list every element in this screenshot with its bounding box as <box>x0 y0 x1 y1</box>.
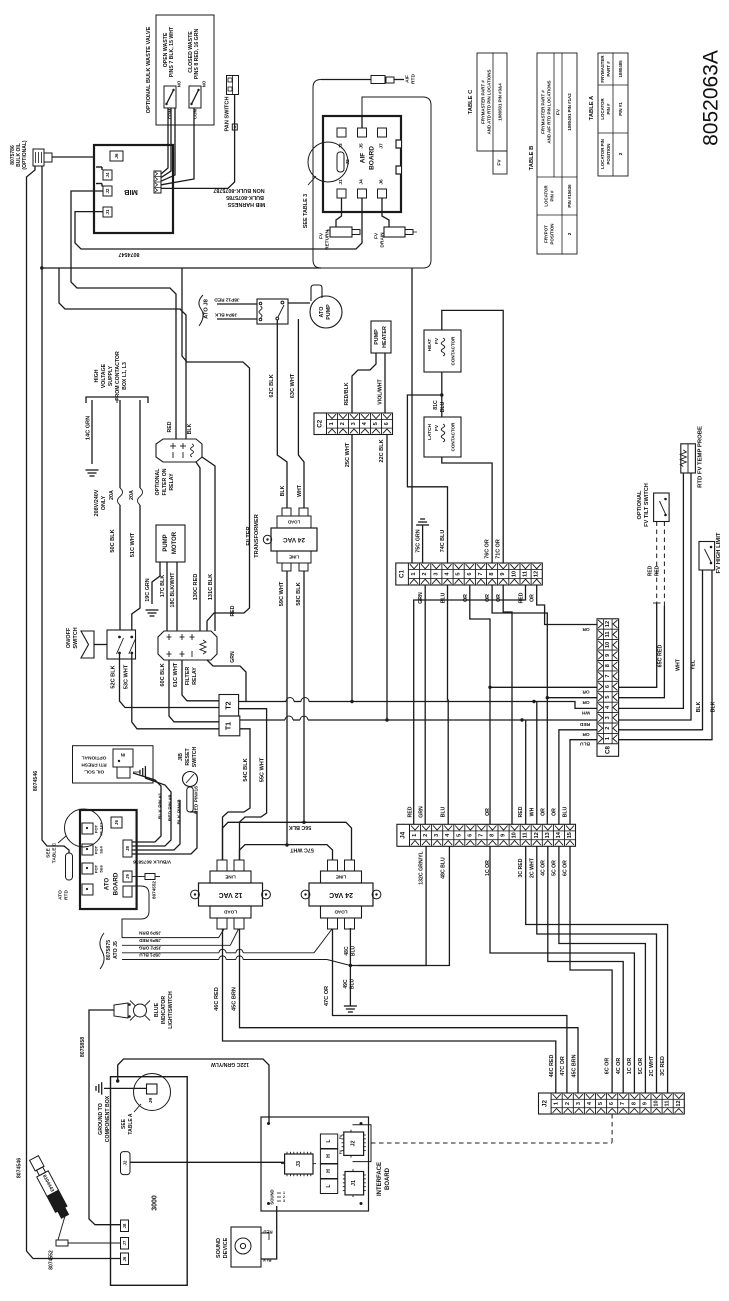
svg-text:RED PIN#16: RED PIN#16 <box>194 786 200 814</box>
svg-text:OR: OR <box>540 808 546 816</box>
svg-text:20A: 20A <box>129 490 135 500</box>
high voltage bracket <box>86 397 148 403</box>
wire RED to filter relay pin9 <box>207 606 250 631</box>
wire 45C BRN <box>240 929 579 1093</box>
wire AIF J1 to FV return <box>336 198 342 227</box>
wire chevron to switch <box>94 644 107 646</box>
AIF connector J7 <box>378 128 387 137</box>
JIB reset switch <box>183 772 198 787</box>
svg-text:BLK: BLK <box>696 701 702 712</box>
svg-text:48C BLU: 48C BLU <box>441 857 447 879</box>
svg-text:CONTACTOR: CONTACTOR <box>451 422 456 452</box>
svg-text:TABLE C: TABLE C <box>52 842 58 863</box>
svg-text:SEE: SEE <box>46 847 52 857</box>
svg-text:LOCATOR: LOCATOR <box>544 185 549 207</box>
svg-text:DEVICE: DEVICE <box>223 1237 229 1258</box>
connector C2 <box>314 413 393 435</box>
svg-text:3C RED: 3C RED <box>518 858 524 877</box>
svg-text:YEL: YEL <box>691 659 697 670</box>
filter transformer 24 VAC <box>271 528 317 551</box>
svg-text:GRN: GRN <box>230 651 236 663</box>
svg-text:SWITCH: SWITCH <box>73 627 79 648</box>
wire 71C OR from heat contactor <box>442 310 503 563</box>
optional RTI fresh oil box <box>73 746 154 783</box>
svg-text:45C BRN: 45C BRN <box>571 1054 577 1077</box>
ATO RTD pill <box>66 853 73 880</box>
wire C1-11 RED to J4-1 <box>414 585 526 824</box>
wire 17C BLK <box>166 562 168 631</box>
wire relay to ATO pump <box>288 302 310 304</box>
svg-text:22C BLK: 22C BLK <box>379 439 385 462</box>
svg-text:1: 1 <box>329 422 335 425</box>
svg-text:13: 13 <box>545 832 551 838</box>
optional FV tilt switch <box>654 493 670 522</box>
svg-text:5C OR: 5C OR <box>551 860 557 876</box>
svg-text:CONTACTOR: CONTACTOR <box>451 336 456 366</box>
latch FV contactor <box>424 417 461 457</box>
svg-text:J5: J5 <box>359 143 365 149</box>
terminal block T2 <box>219 695 239 717</box>
svg-text:BLU: BLU <box>563 806 569 817</box>
wire 55C to 12VAC line right <box>240 812 267 860</box>
svg-text:11: 11 <box>605 631 611 637</box>
wire J5P5 RED <box>122 929 239 945</box>
svg-text:OR: OR <box>551 808 557 816</box>
wire T1 output to C8-3 RED <box>240 719 285 721</box>
svg-text:FV: FV <box>319 232 325 239</box>
svg-text:J3: J3 <box>338 143 344 149</box>
optional bulk waste valve box <box>156 15 214 125</box>
AIF RTD connector <box>371 76 385 84</box>
svg-text:FRYMASTER: FRYMASTER <box>600 55 605 83</box>
svg-text:DRAIN: DRAIN <box>380 232 386 248</box>
svg-text:BLU: BLU <box>351 945 357 956</box>
svg-text:LINE: LINE <box>336 875 346 880</box>
wire C8-5 OR line <box>547 697 597 699</box>
svg-text:RED PIN #9: RED PIN #9 <box>168 794 174 821</box>
svg-text:46C RED: 46C RED <box>214 987 220 1011</box>
svg-text:RED: RED <box>263 1230 272 1235</box>
svg-text:2: 2 <box>422 572 428 575</box>
wire 132C GRN/YL <box>358 846 426 965</box>
svg-text:60C BLK: 60C BLK <box>160 663 166 686</box>
svg-text:FILTER: FILTER <box>246 526 252 545</box>
wire open waste NO to MIB J5 <box>161 108 175 181</box>
wire BLK PIN #1 <box>132 773 161 842</box>
svg-text:59C WHT: 59C WHT <box>279 581 285 606</box>
svg-text:3: 3 <box>605 716 611 719</box>
wire 5C OR staircase <box>559 846 646 1093</box>
3000 connector J7 <box>121 1238 129 1250</box>
AIF connector J2 pill <box>337 152 344 172</box>
svg-text:8074546: 8074546 <box>17 1158 23 1178</box>
wire BLK C8-1 to high limit <box>619 570 712 740</box>
svg-text:48C: 48C <box>344 946 350 956</box>
svg-text:LIGHT/SWITCH: LIGHT/SWITCH <box>168 991 174 1029</box>
svg-text:ATO J5: ATO J5 <box>113 941 119 959</box>
svg-text:BLK: BLK <box>711 701 717 712</box>
svg-text:GROUND TO: GROUND TO <box>98 1103 104 1135</box>
wire MIB J1 to AIF J4 <box>75 198 362 249</box>
svg-text:COM: COM <box>193 109 198 120</box>
svg-text:10: 10 <box>605 642 611 648</box>
svg-text:12: 12 <box>534 571 540 577</box>
svg-text:25C WHT: 25C WHT <box>345 442 351 467</box>
wire 74C BLU junction to C1-4 <box>407 395 447 563</box>
svg-text:LINE: LINE <box>289 555 299 560</box>
svg-text:FV: FV <box>497 159 503 166</box>
svg-text:55C WHT: 55C WHT <box>260 757 266 782</box>
svg-text:12: 12 <box>676 1100 682 1106</box>
table C <box>477 53 507 151</box>
ATO connector J5 <box>82 884 93 895</box>
svg-text:TABLE A: TABLE A <box>128 1113 134 1134</box>
wire 76C OR latch to C1-8 <box>442 457 492 563</box>
svg-text:C1: C1 <box>399 569 406 577</box>
svg-text:J9: J9 <box>148 1098 154 1104</box>
svg-text:47C OR: 47C OR <box>324 986 330 1006</box>
wire 60C BLK filter relay to T1 <box>169 660 219 722</box>
svg-text:BLU: BLU <box>441 592 447 603</box>
svg-text:56C BLK: 56C BLK <box>289 824 312 830</box>
ATO connector J10 <box>123 886 132 897</box>
svg-text:(OPTIONAL): (OPTIONAL) <box>22 140 28 169</box>
svg-text:J2: J2 <box>105 188 110 193</box>
svg-text:LOCATOR PIN: LOCATOR PIN <box>600 139 605 169</box>
svg-text:130C RED: 130C RED <box>193 574 199 601</box>
wire J4-12 WH riser <box>536 702 538 825</box>
wire C1-6 OR down <box>470 585 490 824</box>
svg-text:50C BLK: 50C BLK <box>110 529 116 552</box>
svg-text:BLUE: BLUE <box>154 1002 160 1017</box>
svg-text:BLU: BLU <box>441 806 447 817</box>
svg-text:14C GRN: 14C GRN <box>86 416 92 440</box>
svg-text:5: 5 <box>605 695 611 698</box>
sound device <box>231 1227 261 1267</box>
svg-text:RED/BLK: RED/BLK <box>344 382 350 405</box>
svg-text:6C OR: 6C OR <box>563 860 569 876</box>
svg-text:HEAT: HEAT <box>427 339 433 352</box>
svg-text:BOARD: BOARD <box>385 1167 391 1190</box>
wire VIOL/WHT pump heater to C2-6 <box>384 353 386 413</box>
svg-text:ATO: ATO <box>58 890 64 900</box>
wire T2 output to C8-4 WH <box>239 701 286 703</box>
wire 18C BLK/WHT <box>176 562 178 631</box>
connector C1 <box>396 563 543 585</box>
svg-text:PUMP: PUMP <box>326 304 332 320</box>
svg-text:18C BLK/WHT: 18C BLK/WHT <box>170 572 176 608</box>
wire 52C BLK switch to T2 <box>120 654 220 708</box>
svg-text:7: 7 <box>478 834 484 837</box>
terminal block T1 <box>219 716 240 736</box>
J9 ground <box>101 1082 103 1094</box>
svg-text:9: 9 <box>605 654 611 657</box>
svg-text:53C WHT: 53C WHT <box>124 664 130 689</box>
AIF circle <box>308 142 348 182</box>
svg-text:6: 6 <box>605 685 611 688</box>
ATO circle <box>65 809 103 847</box>
svg-text:6: 6 <box>467 572 473 575</box>
svg-text:GRN: GRN <box>419 806 425 818</box>
svg-text:H: H <box>326 1154 332 1158</box>
svg-text:INTERFACE: INTERFACE <box>377 1162 383 1196</box>
svg-text:6: 6 <box>609 1102 615 1105</box>
wire 54C to 12VAC line left <box>223 806 251 860</box>
svg-text:MIB: MIB <box>124 188 138 197</box>
wire AIF RTD to harness <box>321 79 371 81</box>
J9 circle <box>134 1074 171 1111</box>
wire relay to 131C BLK <box>202 457 215 631</box>
svg-text:75C GRN: 75C GRN <box>416 529 422 552</box>
svg-text:PIN #: PIN # <box>606 103 611 115</box>
svg-text:C2: C2 <box>317 419 324 427</box>
svg-text:OR: OR <box>582 699 590 705</box>
svg-text:J2: J2 <box>351 1141 357 1147</box>
svg-text:AIF: AIF <box>360 153 367 164</box>
svg-text:J8P12 RED: J8P12 RED <box>214 297 240 303</box>
wire 8075858 lamp to 3000 J8 <box>89 1010 121 1225</box>
svg-text:RED: RED <box>655 565 661 576</box>
svg-text:FV TILT SWITCH: FV TILT SWITCH <box>644 483 650 527</box>
svg-text:61C WHT: 61C WHT <box>173 662 179 687</box>
svg-text:10: 10 <box>654 1100 660 1106</box>
wire 3000 J2 to interface J3 <box>130 1161 285 1163</box>
FV high limit switch <box>699 542 715 571</box>
svg-text:TABLE C: TABLE C <box>468 89 474 115</box>
wire MIB J2 right <box>71 191 176 439</box>
svg-text:1: 1 <box>554 1102 560 1105</box>
svg-text:9: 9 <box>501 834 507 837</box>
svg-text:J6: J6 <box>379 179 385 185</box>
svg-text:J2: J2 <box>541 1100 548 1107</box>
svg-text:T1: T1 <box>226 722 233 730</box>
connector J4 <box>397 824 576 846</box>
svg-text:LOCATOR: LOCATOR <box>600 98 605 120</box>
svg-text:2: 2 <box>605 727 611 730</box>
svg-text:WH: WH <box>529 807 535 816</box>
svg-text:2: 2 <box>567 232 572 235</box>
svg-text:PINS 7 BLK, 15 WHT: PINS 7 BLK, 15 WHT <box>169 26 175 77</box>
table A <box>598 53 628 176</box>
svg-text:PUMP: PUMP <box>374 329 380 345</box>
svg-text:J8P4 BLK: J8P4 BLK <box>214 312 237 318</box>
wire BLK PIN#8 <box>132 800 180 850</box>
svg-text:AIF: AIF <box>405 75 411 83</box>
svg-text:12 VAC: 12 VAC <box>219 891 243 898</box>
wire C1-9 OR down <box>503 585 512 824</box>
svg-text:FRYPOT: FRYPOT <box>544 225 549 243</box>
MIB connector J5 <box>154 171 161 193</box>
closed waste switch <box>189 86 201 108</box>
wire 57C WHT <box>240 845 333 860</box>
svg-text:24 VAC: 24 VAC <box>329 891 353 898</box>
svg-text:TRANSFORMER: TRANSFORMER <box>254 514 260 558</box>
svg-text:2: 2 <box>618 152 623 155</box>
wire J8P12 RED <box>217 303 257 305</box>
interface board <box>261 1117 369 1211</box>
heat FV contactor <box>424 330 461 372</box>
svg-text:7: 7 <box>620 1102 626 1105</box>
svg-text:OR: OR <box>582 689 590 695</box>
svg-text:RED: RED <box>519 592 525 603</box>
svg-text:J2: J2 <box>345 159 351 165</box>
svg-text:RTI FRESH: RTI FRESH <box>81 762 107 768</box>
MIB board <box>94 145 173 233</box>
svg-text:208V/240V: 208V/240V <box>94 489 100 516</box>
svg-text:ONLY: ONLY <box>101 495 107 510</box>
svg-text:RETURN: RETURN <box>325 229 331 250</box>
wire harness branch down <box>182 268 250 606</box>
svg-text:MOTOR: MOTOR <box>172 531 178 554</box>
svg-text:10: 10 <box>512 832 518 838</box>
fuse 8074552 <box>56 1240 68 1246</box>
svg-text:FROM CONTACTOR: FROM CONTACTOR <box>115 351 121 401</box>
wire second left bus 8074546 <box>42 166 69 853</box>
wire 25C WHT <box>351 435 353 702</box>
wire 65C RED C8-6 to tilt switch <box>619 603 657 687</box>
wire sound device to interface <box>261 1206 277 1259</box>
svg-text:INDICATOR: INDICATOR <box>161 996 167 1025</box>
svg-text:SEE: SEE <box>121 1118 127 1129</box>
wire closed waste COM to MIB J5 <box>161 108 194 185</box>
wire T2 output to 55C WHT <box>239 709 267 812</box>
svg-text:4C OR: 4C OR <box>540 860 546 876</box>
ATO board <box>80 810 137 909</box>
optional filter ON relay <box>156 439 202 462</box>
svg-text:BLU: BLU <box>440 401 446 412</box>
svg-text:PIN #15636: PIN #15636 <box>567 184 572 208</box>
svg-text:BULK-8075785: BULK-8075785 <box>226 194 264 200</box>
ATO connector J3 <box>82 863 93 874</box>
svg-text:PUMP: PUMP <box>163 534 169 551</box>
svg-text:71C OR: 71C OR <box>496 539 502 559</box>
wire 50C BLK <box>119 400 121 488</box>
svg-text:SOUND: SOUND <box>216 1238 222 1258</box>
svg-text:VOLTAGE: VOLTAGE <box>101 363 107 388</box>
svg-text:POSITION: POSITION <box>550 224 555 245</box>
svg-text:3: 3 <box>283 1199 285 1203</box>
wire C8-1 BLU from J4-15 <box>570 740 597 825</box>
svg-text:HIGH: HIGH <box>94 369 100 382</box>
svg-text:1080491 PIN #1A2: 1080491 PIN #1A2 <box>567 93 572 131</box>
wire 1C OR staircase <box>490 846 634 1093</box>
svg-text:49C: 49C <box>343 979 349 989</box>
svg-text:8074547: 8074547 <box>119 251 140 257</box>
svg-text:1: 1 <box>605 737 611 740</box>
svg-text:J5P1 BLU: J5P1 BLU <box>139 953 161 958</box>
svg-text:HEATER: HEATER <box>382 326 388 348</box>
svg-text:FV: FV <box>339 1149 343 1154</box>
wire 4C OR staircase <box>548 846 623 1093</box>
svg-text:J6: J6 <box>114 820 119 825</box>
wire 122C GRN/YLW <box>118 1059 269 1123</box>
svg-text:5: 5 <box>456 834 462 837</box>
svg-text:RED: RED <box>518 806 524 817</box>
AIF connector J5 <box>358 128 367 137</box>
svg-text:FV: FV <box>434 424 440 431</box>
wire 51C WHT <box>139 400 141 488</box>
svg-text:51C WHT: 51C WHT <box>130 532 136 557</box>
MIB connector J4 <box>103 170 112 180</box>
RTI IN connector <box>113 749 133 767</box>
svg-text:PINS 8 RED, 16 GRN: PINS 8 RED, 16 GRN <box>194 29 200 80</box>
wire 6C OR staircase <box>570 846 612 1093</box>
svg-text:RED: RED <box>648 565 654 576</box>
svg-text:2C WHT: 2C WHT <box>649 1055 655 1076</box>
svg-text:NO: NO <box>202 80 207 87</box>
svg-text:ON/OFF: ON/OFF <box>66 627 72 648</box>
speaker terminals L H H L <box>320 1134 337 1149</box>
svg-text:3: 3 <box>433 572 439 575</box>
3000 connector J2 <box>121 1152 131 1175</box>
svg-text:6: 6 <box>384 422 390 425</box>
svg-text:45C BRN: 45C BRN <box>232 987 238 1011</box>
wire 46C RED <box>223 929 556 1093</box>
wire C1-8 OR to C8 bus <box>492 585 547 698</box>
svg-text:WH: WH <box>581 710 590 716</box>
wire WHT C8-4 to RTD probe <box>619 473 684 708</box>
wire 14C GRN with ground <box>91 400 93 464</box>
svg-text:FRYMASTER PART #: FRYMASTER PART # <box>541 90 546 134</box>
svg-text:J5P9 BRN: J5P9 BRN <box>138 931 161 936</box>
wire 47C OR <box>333 929 567 1093</box>
wire RED/BLK pump heater to C2-3 <box>352 353 376 413</box>
interface connector J3 <box>285 1154 313 1174</box>
svg-text:OIL SOL.: OIL SOL. <box>84 769 104 775</box>
svg-text:J8: J8 <box>125 846 130 851</box>
svg-text:OR: OR <box>463 594 469 602</box>
svg-text:J7: J7 <box>379 143 385 149</box>
wire 81C BLU between contactors <box>441 372 443 417</box>
svg-text:AND ATD RTD PIN LOCATIONS: AND ATD RTD PIN LOCATIONS <box>487 70 492 135</box>
AIF harness rounded outline <box>313 80 431 269</box>
svg-text:FV: FV <box>434 337 440 344</box>
svg-text:8074552: 8074552 <box>152 881 157 899</box>
svg-text:PAN SWITCH: PAN SWITCH <box>225 96 231 131</box>
svg-text:8: 8 <box>490 834 496 837</box>
svg-text:OR: OR <box>485 808 491 816</box>
wire T1 output to 54C BLK <box>240 729 250 806</box>
connector C8 <box>597 619 619 757</box>
wire 62C BLK <box>277 320 287 508</box>
svg-text:3000: 3000 <box>152 1195 159 1211</box>
ATO pump relay <box>257 299 288 324</box>
transformer 12 VAC <box>199 883 263 906</box>
wire J4-11 RED riser <box>525 720 527 824</box>
svg-text:J5P2 ORG: J5P2 ORG <box>138 946 161 951</box>
svg-text:BLK: BLK <box>187 423 193 434</box>
pump motor <box>156 525 185 562</box>
wire 53C WHT switch to T1 <box>132 654 219 729</box>
svg-text:SWITCH: SWITCH <box>192 747 198 768</box>
harness chevron <box>81 631 94 658</box>
temperature probe 8104443 <box>28 1155 70 1219</box>
svg-text:58C BLK: 58C BLK <box>296 582 302 605</box>
wire C8-5 to tilt switch right <box>619 606 665 698</box>
wire relay to 130C RED <box>196 462 200 631</box>
svg-text:132C GRN/YL: 132C GRN/YL <box>419 850 425 884</box>
wire J5P9 BRN <box>122 929 224 938</box>
RTI ground <box>133 771 140 773</box>
svg-text:RED: RED <box>579 721 590 727</box>
svg-text:7: 7 <box>605 675 611 678</box>
wire 63C WHT <box>298 319 304 508</box>
MIB connector J2 <box>103 186 112 196</box>
svg-text:6C OR: 6C OR <box>605 1058 611 1075</box>
bulk oil connector 8075786 <box>33 149 44 166</box>
connector J2 main <box>539 1093 685 1114</box>
svg-text:5&6: 5&6 <box>99 865 104 873</box>
